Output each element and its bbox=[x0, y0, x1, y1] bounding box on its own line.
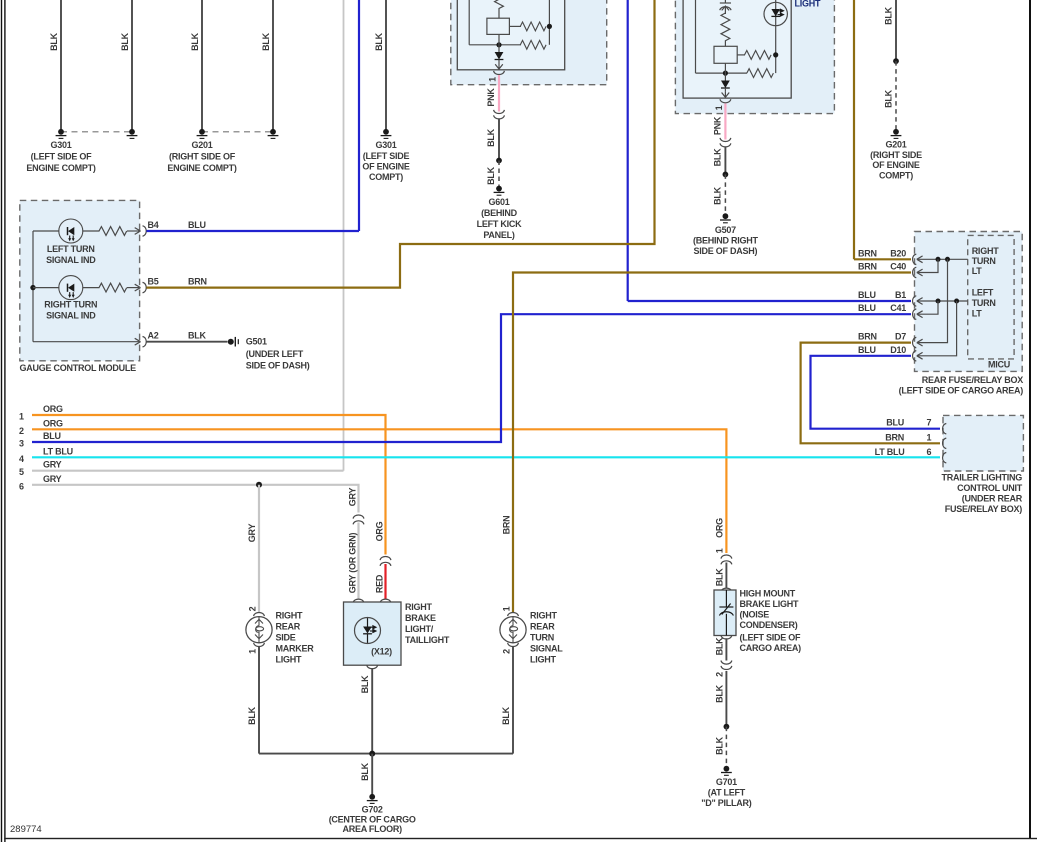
svg-text:BRAKE: BRAKE bbox=[405, 613, 436, 623]
svg-text:BLK: BLK bbox=[713, 148, 723, 166]
ground G301 (left side of engine compt), right point bbox=[127, 129, 138, 139]
wire GRY (OR GRN) to brake light bbox=[357, 523, 359, 600]
label G507 (BEHIND RIGHT SIDE OF DASH) bbox=[693, 225, 758, 256]
wire BLK from marker light bbox=[258, 647, 260, 754]
svg-text:(NOISE: (NOISE bbox=[740, 610, 770, 620]
connector cap above turn light bbox=[508, 613, 519, 617]
ground G301 (single) bbox=[381, 129, 392, 139]
label REAR FUSE/RELAY BOX (LEFT SIDE OF CARGO AREA) bbox=[899, 375, 1024, 395]
relay unit 1 internal right branch wire bbox=[548, 0, 550, 45]
right brake light box bbox=[344, 602, 402, 665]
pin B1 arrow bbox=[917, 298, 923, 305]
pin cap RED at brake light box bbox=[380, 599, 391, 603]
svg-text:BLK: BLK bbox=[486, 128, 496, 146]
svg-text:PANEL): PANEL) bbox=[483, 230, 515, 240]
wire BLK to G301 (left pair, wire 1) bbox=[49, 0, 61, 132]
inline connector on high mount feed bbox=[721, 555, 732, 564]
svg-text:OF ENGINE: OF ENGINE bbox=[362, 161, 410, 171]
wire BLK below high mount bbox=[725, 638, 727, 660]
wire BRN C40 (to right rear turn signal light) bbox=[513, 273, 911, 613]
pin 6 connector arc bbox=[943, 453, 947, 463]
wire 1 ORG bbox=[19, 404, 386, 555]
wire GRY vertical trunk (to numbered wire 5) bbox=[343, 0, 345, 471]
pin 1 connector arc bbox=[943, 438, 947, 448]
capacitor C1 inside high mount box bbox=[719, 590, 733, 636]
label G301 (LEFT SIDE OF ENGINE COMPT) bbox=[26, 140, 96, 173]
junction dot D10 branch bbox=[954, 299, 959, 304]
svg-text:1: 1 bbox=[927, 432, 932, 442]
label RIGHT TURN LT bbox=[972, 246, 1000, 276]
svg-text:BLK: BLK bbox=[360, 762, 370, 780]
svg-text:RED: RED bbox=[375, 574, 385, 593]
svg-text:COMPT): COMPT) bbox=[879, 170, 913, 180]
svg-text:CARGO AREA): CARGO AREA) bbox=[740, 643, 802, 653]
svg-text:289774: 289774 bbox=[10, 824, 42, 835]
svg-text:BLU: BLU bbox=[858, 303, 876, 313]
wire BLU vertical trunk (to fuse box B1) bbox=[627, 0, 629, 301]
svg-text:G702: G702 bbox=[362, 805, 383, 815]
high mount brake light box (noise condenser) bbox=[714, 590, 736, 636]
pin D10 arrow bbox=[917, 352, 923, 359]
svg-text:OF ENGINE: OF ENGINE bbox=[872, 160, 920, 170]
fuse box internal wire D10 branch bbox=[918, 301, 957, 356]
relay unit 2 resistor (vertical) bbox=[721, 13, 730, 46]
wire BLK from turn light bbox=[512, 647, 514, 754]
relay unit 1 internal left branch wire bbox=[468, 0, 470, 45]
wire RED to brake light bbox=[384, 564, 386, 599]
svg-text:BRN: BRN bbox=[858, 262, 877, 272]
label G701 (AT LEFT "D" PILLAR) bbox=[701, 777, 752, 808]
label G201 (RIGHT SIDE OF ENGINE COMPT) bbox=[167, 140, 237, 173]
svg-text:(UNDER REAR: (UNDER REAR bbox=[962, 494, 1023, 504]
wire BLK to high mount light bbox=[725, 563, 727, 589]
svg-text:BRN: BRN bbox=[885, 432, 904, 442]
left turn signal ind branch wire bbox=[33, 230, 59, 232]
svg-text:1: 1 bbox=[487, 77, 497, 82]
dashed wire BLK to G201 ground bbox=[895, 61, 897, 129]
fuse box internal wire C40 branch bbox=[918, 259, 939, 272]
relay unit 2 lower branch wire bbox=[696, 72, 748, 74]
junction dot on G507 wire bbox=[723, 172, 729, 178]
relay unit 2 outer dashed box bbox=[675, 0, 834, 114]
inline connector on G507 wire bbox=[720, 138, 731, 147]
wire BLK from brake light bbox=[371, 668, 373, 754]
inline connector on ORG/RED wire bbox=[380, 557, 391, 566]
connector cup below brake light box bbox=[367, 665, 378, 669]
svg-text:2: 2 bbox=[502, 649, 512, 654]
relay unit 2 wire coil to upper resistor bbox=[737, 54, 745, 56]
wire BLK from A2 to G501 bbox=[147, 341, 228, 343]
pin B20 connector arc bbox=[913, 254, 917, 264]
relay unit 1 lower resistor (horizontal) bbox=[520, 40, 546, 49]
svg-text:G201: G201 bbox=[191, 140, 212, 150]
svg-text:COMPT): COMPT) bbox=[369, 172, 403, 182]
svg-text:TRAILER LIGHTING: TRAILER LIGHTING bbox=[942, 472, 1023, 482]
svg-text:BLK: BLK bbox=[374, 32, 384, 50]
svg-text:(LEFT SIDE OF: (LEFT SIDE OF bbox=[740, 632, 802, 642]
svg-text:RIGHT: RIGHT bbox=[972, 246, 1000, 256]
svg-text:TAILLIGHT: TAILLIGHT bbox=[405, 635, 450, 645]
pin B20 arrow bbox=[917, 256, 923, 263]
svg-text:AREA FLOOR): AREA FLOOR) bbox=[342, 824, 402, 834]
ground G501 (chassis symbol) bbox=[228, 337, 239, 347]
svg-text:BLK: BLK bbox=[190, 32, 200, 50]
svg-text:BLK: BLK bbox=[713, 186, 723, 204]
wire LED to resistor bbox=[82, 287, 99, 289]
svg-text:CONDENSER): CONDENSER) bbox=[740, 620, 798, 630]
svg-text:A2: A2 bbox=[148, 331, 159, 341]
svg-text:LEFT: LEFT bbox=[972, 287, 994, 297]
gauge module internal bus wire bbox=[32, 231, 34, 342]
pin B4 connector arc bbox=[143, 226, 147, 236]
junction dot on wire 6 bbox=[256, 482, 262, 488]
wire BRN vertical trunk (to fuse box B20) bbox=[853, 0, 855, 259]
svg-text:BLK: BLK bbox=[501, 706, 511, 724]
svg-text:2: 2 bbox=[248, 606, 258, 611]
svg-text:(CENTER OF CARGO: (CENTER OF CARGO bbox=[329, 814, 416, 824]
svg-text:B4: B4 bbox=[148, 220, 159, 230]
svg-text:HIGH MOUNT: HIGH MOUNT bbox=[740, 589, 796, 599]
svg-text:G201: G201 bbox=[885, 139, 906, 149]
wire 6 GRY bbox=[19, 474, 359, 513]
relay unit 2 inner case box bbox=[683, 0, 791, 98]
svg-text:LEFT TURN: LEFT TURN bbox=[47, 244, 95, 254]
right turn signal indicator LED U2 bbox=[59, 276, 83, 300]
wire BLK to G201 (right pair, wire 2) bbox=[261, 0, 273, 132]
wire BLU vertical trunk (to gauge B4) bbox=[358, 0, 360, 231]
label G201 (RIGHT SIDE OF ENGINE COMPT) bbox=[870, 139, 922, 180]
svg-text:B20: B20 bbox=[890, 248, 906, 258]
pin A2 arrow bbox=[135, 338, 141, 345]
ground G201 (right side of engine compt), right point bbox=[268, 129, 279, 139]
svg-text:1: 1 bbox=[19, 412, 24, 422]
dashed wire BLK to G601 ground bbox=[498, 161, 500, 187]
relay unit 1 lower branch wire bbox=[469, 44, 521, 46]
label G501 (UNDER LEFT SIDE OF DASH) bbox=[246, 337, 310, 371]
svg-text:ENGINE COMPT): ENGINE COMPT) bbox=[167, 163, 237, 173]
svg-text:(RIGHT SIDE: (RIGHT SIDE bbox=[870, 150, 922, 160]
pin C40 connector arc bbox=[913, 267, 917, 277]
svg-text:SIDE: SIDE bbox=[276, 633, 296, 643]
svg-text:BLK: BLK bbox=[261, 32, 271, 50]
svg-text:1: 1 bbox=[502, 606, 512, 611]
svg-text:D10: D10 bbox=[890, 345, 906, 355]
svg-text:G301: G301 bbox=[375, 140, 396, 150]
junction dot on G601 wire bbox=[496, 158, 502, 164]
svg-text:RIGHT: RIGHT bbox=[530, 611, 558, 621]
relay unit 2 internal right branch wire bbox=[775, 0, 777, 73]
right rear turn signal light bulb bbox=[500, 617, 526, 643]
relay unit 1 pin 1 connector cup bbox=[494, 71, 505, 75]
svg-text:BLK: BLK bbox=[49, 32, 59, 50]
ground G201 (right) bbox=[891, 129, 902, 139]
relay unit 2 relay coil bbox=[714, 46, 737, 63]
svg-text:LT: LT bbox=[972, 266, 983, 276]
wire BLK to G702 bbox=[371, 754, 373, 797]
svg-text:BLK: BLK bbox=[884, 6, 894, 24]
svg-text:LIGHT: LIGHT bbox=[795, 0, 821, 9]
label RIGHT TURN SIGNAL IND bbox=[44, 300, 97, 321]
resistor R2 bbox=[99, 283, 127, 292]
junction dot bbox=[893, 58, 899, 64]
svg-text:GRY: GRY bbox=[247, 524, 257, 543]
svg-text:LIGHT: LIGHT bbox=[530, 655, 556, 665]
svg-text:BRN: BRN bbox=[502, 516, 512, 535]
svg-text:G701: G701 bbox=[716, 777, 737, 787]
svg-text:BLK: BLK bbox=[360, 675, 370, 693]
pin A2 branch wire bbox=[33, 341, 139, 343]
wire PNK from relay unit 1 bbox=[498, 75, 500, 112]
svg-text:GRY (OR GRN): GRY (OR GRN) bbox=[347, 533, 357, 594]
left turn signal indicator LED U1 bbox=[59, 219, 83, 243]
inline connector on GRY branch bbox=[353, 515, 364, 524]
svg-text:2: 2 bbox=[19, 426, 24, 436]
svg-text:SIGNAL IND: SIGNAL IND bbox=[46, 310, 96, 320]
pin C41 connector arc bbox=[913, 309, 917, 319]
relay unit 1 inner case box bbox=[457, 0, 564, 70]
svg-text:6: 6 bbox=[927, 447, 932, 457]
svg-text:G501: G501 bbox=[246, 337, 267, 347]
dashed link wire between G301 ground points bbox=[61, 131, 132, 133]
ground G201 (right side of engine compt), left point bbox=[197, 129, 208, 139]
svg-text:GRY: GRY bbox=[347, 488, 357, 507]
relay unit 2 pin arrow at case edge bbox=[722, 91, 730, 98]
svg-text:1: 1 bbox=[714, 105, 724, 110]
svg-text:B1: B1 bbox=[895, 290, 906, 300]
svg-text:BLU: BLU bbox=[188, 220, 206, 230]
ground G601 bbox=[494, 186, 505, 196]
svg-text:PNK: PNK bbox=[486, 88, 496, 107]
connector cap above marker light bbox=[254, 613, 265, 617]
relay unit 2 pin 1 connector cup bbox=[720, 99, 731, 103]
svg-text:G301: G301 bbox=[50, 140, 71, 150]
wire BLU to pin B1 bbox=[628, 300, 911, 302]
wire BRN from B5 bbox=[147, 0, 655, 288]
wire BLK to G601 bbox=[498, 119, 500, 161]
relay unit 1 junction dot lower bbox=[496, 42, 501, 47]
page bottom border frame bbox=[4, 838, 1037, 839]
pin D7 connector arc bbox=[913, 337, 917, 347]
relay unit 1 relay coil bbox=[487, 18, 510, 34]
svg-text:G601: G601 bbox=[488, 197, 509, 207]
wire BLK to G301 (single, by gauge module) bbox=[374, 0, 386, 132]
svg-text:B5: B5 bbox=[148, 277, 159, 287]
pin D7 arrow bbox=[917, 339, 923, 346]
svg-text:(RIGHT SIDE OF: (RIGHT SIDE OF bbox=[169, 152, 236, 162]
svg-text:BLK: BLK bbox=[188, 331, 206, 341]
wire BLU D10 (to trailer unit pin 7) bbox=[811, 356, 941, 429]
svg-text:(AT LEFT: (AT LEFT bbox=[708, 787, 746, 797]
svg-text:BLK: BLK bbox=[884, 89, 894, 107]
svg-text:7: 7 bbox=[927, 418, 932, 428]
svg-text:(LEFT SIDE: (LEFT SIDE bbox=[363, 151, 410, 161]
label TRAILER LIGHTING CONTROL UNIT (UNDER REAR FUSE/RELAY BOX) bbox=[942, 472, 1023, 514]
svg-text:ORG: ORG bbox=[43, 418, 63, 428]
pin B1 connector arc bbox=[913, 296, 917, 306]
svg-text:TURN: TURN bbox=[972, 256, 996, 266]
svg-text:G507: G507 bbox=[715, 225, 736, 235]
wire BLK to G701 junction bbox=[725, 671, 727, 727]
ground G507 bbox=[720, 213, 731, 223]
svg-text:CONTROL UNIT: CONTROL UNIT bbox=[957, 483, 1023, 493]
ground G301 (left side of engine compt), left point bbox=[56, 129, 67, 139]
label RIGHT BRAKE LIGHT/ TAILLIGHT bbox=[405, 602, 450, 645]
svg-text:(BEHIND RIGHT: (BEHIND RIGHT bbox=[693, 236, 758, 246]
wire BLK ground bus bbox=[259, 753, 513, 755]
svg-text:LEFT KICK: LEFT KICK bbox=[477, 219, 522, 229]
wire 4 LT BLU (to trailer unit pin 6) bbox=[19, 446, 940, 464]
pin C41 arrow bbox=[917, 311, 923, 318]
wire resistor to pin B4 bbox=[127, 230, 139, 232]
rear fuse/relay box dashed outline bbox=[915, 232, 1023, 372]
inline connector below high mount bbox=[721, 661, 732, 670]
trailer lighting control unit dashed box bbox=[943, 415, 1023, 471]
wire 3 BLU (to fuse box C41) bbox=[19, 314, 911, 448]
svg-text:SIGNAL IND: SIGNAL IND bbox=[46, 255, 96, 265]
svg-text:BLU: BLU bbox=[886, 418, 904, 428]
connector cup below marker light bbox=[254, 643, 265, 647]
svg-text:TURN: TURN bbox=[972, 298, 996, 308]
pin B5 arrow bbox=[135, 284, 141, 291]
svg-text:SIDE OF DASH): SIDE OF DASH) bbox=[694, 246, 758, 256]
svg-text:LIGHT/: LIGHT/ bbox=[405, 624, 434, 634]
svg-text:BLU: BLU bbox=[858, 290, 876, 300]
label LEFT TURN SIGNAL IND bbox=[46, 244, 96, 265]
svg-text:ORG: ORG bbox=[375, 521, 385, 541]
pin D10 connector arc bbox=[913, 351, 917, 361]
svg-text:BLK: BLK bbox=[714, 637, 724, 655]
relay unit 2 LED indicator bbox=[764, 2, 787, 25]
relay unit 2 upper resistor (horizontal) bbox=[745, 51, 772, 60]
relay unit 1 diode bbox=[495, 52, 504, 63]
svg-text:ORG: ORG bbox=[43, 404, 63, 414]
svg-text:MARKER: MARKER bbox=[276, 644, 315, 654]
relay unit 2 lower resistor (horizontal) bbox=[747, 69, 774, 78]
svg-text:LT BLU: LT BLU bbox=[43, 446, 73, 456]
fuse box internal wire D7 branch bbox=[918, 259, 948, 342]
relay unit 1 outer dashed box bbox=[451, 0, 607, 85]
svg-text:LT: LT bbox=[972, 308, 983, 318]
label RIGHT REAR TURN SIGNAL LIGHT bbox=[530, 611, 563, 665]
relay unit 2 diode bbox=[721, 81, 730, 92]
svg-text:BRN: BRN bbox=[858, 248, 877, 258]
label LEFT TURN LT bbox=[972, 287, 996, 318]
svg-text:PNK: PNK bbox=[713, 116, 723, 135]
resistor R1 bbox=[99, 227, 127, 236]
right turn signal ind branch wire bbox=[33, 287, 59, 289]
svg-text:MICU: MICU bbox=[988, 360, 1010, 370]
relay unit 1 wire coil to upper resistor bbox=[509, 25, 521, 27]
brake light LED symbol bbox=[355, 618, 381, 644]
svg-text:BLK: BLK bbox=[120, 32, 130, 50]
svg-text:RIGHT: RIGHT bbox=[276, 611, 304, 621]
wire BLK (solid segment) bbox=[895, 0, 897, 61]
svg-text:2: 2 bbox=[715, 672, 725, 677]
svg-text:GRY: GRY bbox=[43, 460, 62, 470]
wire 5 GRY bbox=[19, 460, 344, 478]
svg-text:1: 1 bbox=[715, 548, 725, 553]
svg-text:(LEFT SIDE OF CARGO AREA): (LEFT SIDE OF CARGO AREA) bbox=[899, 385, 1024, 395]
svg-text:RIGHT: RIGHT bbox=[405, 602, 433, 612]
MICU inner dashed box bbox=[968, 235, 1014, 359]
connector cup below turn light bbox=[508, 643, 519, 647]
svg-text:LIGHT: LIGHT bbox=[276, 655, 302, 665]
wire GRY to marker light bbox=[258, 485, 260, 613]
dashed link wire between G201 ground points bbox=[202, 131, 273, 133]
junction dot on bus bbox=[30, 285, 35, 290]
svg-text:C41: C41 bbox=[890, 303, 906, 313]
svg-text:FUSE/RELAY BOX): FUSE/RELAY BOX) bbox=[945, 504, 1023, 514]
svg-text:TURN: TURN bbox=[530, 633, 554, 643]
pin B5 connector arc bbox=[143, 282, 147, 292]
dashed wire BLK to G507 ground bbox=[724, 174, 726, 213]
svg-text:REAR: REAR bbox=[530, 622, 555, 632]
wire BRN D7 (to trailer unit pin 1) bbox=[801, 343, 940, 444]
ground G702 bbox=[367, 794, 378, 804]
dashed wire BLK to G701 bbox=[725, 727, 727, 766]
svg-text:6: 6 bbox=[19, 481, 24, 491]
svg-text:1: 1 bbox=[248, 649, 258, 654]
svg-text:BLU: BLU bbox=[43, 431, 61, 441]
relay unit 2 coil output wire bbox=[724, 63, 726, 80]
pin A2 connector arc bbox=[143, 337, 147, 347]
page right border frame bbox=[1029, 0, 1031, 838]
svg-text:(UNDER LEFT: (UNDER LEFT bbox=[246, 349, 304, 359]
label G702 (CENTER OF CARGO AREA FLOOR) bbox=[329, 805, 416, 834]
wire PNK from relay unit 2 bbox=[724, 104, 726, 140]
pin cap GRY at brake light box bbox=[353, 599, 364, 603]
wire resistor to pin B5 bbox=[127, 287, 139, 289]
svg-text:RIGHT TURN: RIGHT TURN bbox=[44, 300, 97, 310]
pin 7 connector arc bbox=[943, 424, 947, 434]
svg-text:BRN: BRN bbox=[858, 332, 877, 342]
svg-text:BLK: BLK bbox=[247, 706, 257, 724]
svg-text:BLK: BLK bbox=[714, 568, 724, 586]
svg-text:(BEHIND: (BEHIND bbox=[481, 208, 517, 218]
svg-text:ORG: ORG bbox=[714, 518, 724, 538]
fuse box internal wire B1 to LEFT TURN LT bbox=[918, 300, 968, 302]
label G301 (LEFT SIDE OF ENGINE COMPT) 4 lines bbox=[362, 140, 410, 182]
wire BLU from B4 bbox=[147, 230, 360, 232]
svg-text:(X12): (X12) bbox=[371, 647, 392, 657]
wire BLK to G301 (left pair, wire 2) bbox=[120, 0, 132, 132]
label G601 (BEHIND LEFT KICK PANEL) bbox=[477, 197, 522, 240]
gauge control module dashed box bbox=[20, 200, 140, 360]
fuse box internal wire C41 branch bbox=[918, 301, 939, 314]
ground G701 bbox=[721, 766, 732, 776]
junction dot D7 branch bbox=[945, 257, 950, 262]
svg-text:(LEFT SIDE OF: (LEFT SIDE OF bbox=[31, 152, 93, 162]
label RIGHT REAR SIDE MARKER LIGHT bbox=[276, 611, 315, 665]
wire LED to resistor bbox=[82, 230, 99, 232]
svg-text:REAR FUSE/RELAY BOX: REAR FUSE/RELAY BOX bbox=[922, 375, 1024, 385]
relay unit 2 capacitor symbol top bbox=[720, 0, 731, 14]
svg-text:GRY: GRY bbox=[43, 474, 62, 484]
relay unit 1 junction dot upper bbox=[547, 24, 552, 29]
pin B4 arrow bbox=[135, 228, 141, 235]
wire BLK to G507 bbox=[724, 147, 726, 174]
svg-text:SIGNAL: SIGNAL bbox=[530, 644, 563, 654]
svg-text:BRN: BRN bbox=[188, 277, 207, 287]
relay unit 2 internal left branch wire bbox=[695, 0, 697, 73]
junction dot C41 branch bbox=[936, 299, 941, 304]
relay unit 2 junction dot lower bbox=[723, 71, 728, 76]
svg-text:GAUGE CONTROL MODULE: GAUGE CONTROL MODULE bbox=[20, 363, 137, 373]
svg-text:SIDE OF DASH): SIDE OF DASH) bbox=[246, 360, 310, 370]
junction dot on G701 wire bbox=[724, 724, 730, 730]
svg-text:D7: D7 bbox=[895, 332, 906, 342]
svg-text:LT BLU: LT BLU bbox=[875, 447, 905, 457]
